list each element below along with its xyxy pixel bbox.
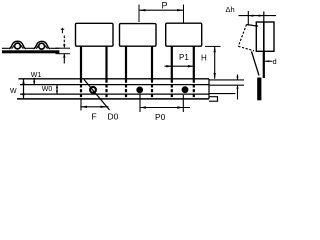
component 3 left lead bbox=[171, 46, 173, 79]
component 3 right lead bbox=[193, 46, 195, 79]
sprocket hole 3 bbox=[182, 87, 188, 93]
svg-text:P0: P0 bbox=[155, 112, 166, 122]
dimension H: extension tick at component bottom bbox=[201, 46, 221, 78]
svg-text:W1: W1 bbox=[31, 72, 42, 79]
component 1 left lead bbox=[80, 46, 82, 79]
dimension F: dimension line bbox=[80, 106, 108, 108]
dimension W1: arrow line bbox=[33, 78, 35, 85]
svg-text:F: F bbox=[92, 112, 97, 122]
dimension P0: dimension line bbox=[140, 107, 190, 109]
carrier tape top view: top edge extension beyond end bbox=[209, 79, 244, 81]
svg-text:W: W bbox=[10, 88, 17, 95]
dimension W0: label bbox=[42, 85, 58, 95]
svg-text:Δh: Δh bbox=[226, 5, 235, 14]
dimension P1: label bbox=[165, 53, 194, 67]
svg-text:D0: D0 bbox=[108, 112, 119, 122]
dimension delta-h: extension above lead bbox=[263, 12, 265, 23]
dimension P: extension line at component 3 center bbox=[183, 5, 185, 24]
tape side view: base band bbox=[2, 41, 59, 53]
sprocket hole with D0 callout bbox=[90, 87, 188, 93]
carrier tape top view: right end edge bbox=[208, 79, 210, 99]
tilted component: dashed bottom edge bbox=[238, 46, 254, 51]
carrier tape top view: top edge bbox=[17, 79, 244, 101]
dimension t: label bbox=[56, 28, 71, 64]
dimension delta-h: label bbox=[226, 5, 277, 26]
component 2 left lead bbox=[125, 46, 127, 79]
dimension H: dimension line bbox=[214, 46, 216, 78]
dimension P1: dimension line bbox=[165, 65, 194, 67]
dimension t: upper extension tick bbox=[56, 47, 71, 49]
component body 3 bbox=[166, 23, 202, 99]
carrier tape top view: stepped hold-down tape end bbox=[209, 97, 218, 102]
component 2 right lead bbox=[151, 46, 153, 79]
dimension W1: label bbox=[31, 72, 42, 85]
lead wire cross-section circle 2 bbox=[39, 43, 45, 49]
dimension P0: left extension line bbox=[140, 94, 190, 123]
dimension P: extension line at component 2 center bbox=[139, 1, 184, 24]
lead in tape crimp (thick bar) bbox=[257, 78, 261, 101]
dimension t: lower arrow line bbox=[63, 54, 65, 64]
tape side view: emboss bump 1 outer bbox=[9, 41, 26, 48]
component body 2 bbox=[120, 24, 157, 99]
dimension delta-h: extension from tilted corner bbox=[247, 11, 249, 26]
upright component lead through body bbox=[263, 22, 265, 51]
tape side view: emboss bump 1 inner bbox=[12, 45, 24, 48]
svg-text:P1: P1 bbox=[179, 53, 189, 62]
edge distance dimension at tape end: arrow line bbox=[236, 75, 238, 100]
svg-text:P: P bbox=[162, 1, 168, 11]
dimension P0: right extension line bbox=[182, 95, 184, 112]
carrier tape top view: hold-down tape lower edge bbox=[20, 93, 209, 95]
tape side view: emboss bump 2 inner bbox=[36, 45, 48, 48]
dimension d: arrow to lead bbox=[265, 57, 277, 66]
component 1 right lead bbox=[105, 46, 107, 79]
sprocket hole 2 bbox=[137, 87, 143, 93]
dimension W0: dimension line with arrows bbox=[56, 85, 58, 95]
dimension t: upper arrow line bbox=[63, 36, 65, 49]
tilted component: solid top edge bbox=[247, 25, 259, 27]
svg-text:d: d bbox=[273, 57, 277, 66]
upright component body (right figure) bbox=[256, 22, 274, 78]
dimension P: dimension line bbox=[139, 9, 184, 11]
svg-text:H: H bbox=[201, 54, 207, 63]
dimension t: lower extension tick bbox=[56, 53, 71, 55]
carrier tape top view: hold-down lower edge extension bbox=[209, 93, 236, 95]
dimension F: left extension line bbox=[80, 99, 108, 122]
carrier tape top view: hold-down upper edge extension bbox=[209, 84, 244, 86]
svg-text:W0: W0 bbox=[42, 86, 53, 93]
upright component lead below body bbox=[263, 51, 265, 78]
component body 1 bbox=[76, 23, 114, 99]
dimension D0: leader line bbox=[84, 80, 119, 122]
dimension W: label bbox=[10, 79, 25, 99]
dimension delta-h: dimension line bbox=[239, 15, 277, 17]
lead wire cross-section circle 1 bbox=[15, 43, 21, 49]
carrier tape top view: hold-down tape upper edge bbox=[20, 84, 209, 86]
tape side view: top surface line bbox=[2, 47, 59, 49]
dimension W: dimension line with arrows bbox=[23, 79, 25, 99]
carrier tape top view: bottom edge bbox=[17, 98, 209, 100]
tilted component: tilted lead bbox=[252, 52, 260, 76]
tilted component: dashed left edge bbox=[238, 25, 259, 76]
tape side view: emboss bump 2 outer bbox=[33, 41, 50, 48]
